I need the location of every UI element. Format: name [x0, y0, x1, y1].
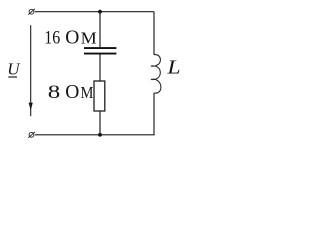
voltage arrow U line — [30, 25, 32, 116]
underline of U — [8, 76, 17, 78]
svg-text:8: 8 — [48, 81, 61, 102]
svg-text:16: 16 — [44, 29, 60, 49]
wire middle branch upper — [99, 12, 101, 48]
svg-text:L: L — [166, 55, 180, 78]
label 16 Om — [44, 28, 96, 49]
node top junction — [98, 10, 102, 14]
voltage arrow head — [29, 103, 33, 111]
wire right lower — [153, 93, 155, 135]
terminal bottom-left — [28, 132, 35, 138]
wire middle below R — [99, 111, 101, 135]
wire bottom — [35, 134, 155, 136]
svg-text:М: М — [81, 84, 94, 102]
inductor L — [151, 55, 161, 94]
svg-text:О: О — [65, 82, 79, 103]
svg-text:М: М — [81, 29, 97, 47]
wire middle between C and R — [99, 55, 101, 82]
wire right upper — [153, 12, 155, 55]
node bottom junction — [98, 133, 102, 137]
label 8 Om — [48, 81, 94, 103]
resistor R box — [94, 81, 105, 111]
terminal top-left — [28, 9, 35, 15]
capacitor C plates — [84, 47, 116, 49]
svg-text:U: U — [7, 59, 21, 78]
wire top — [35, 11, 154, 13]
svg-text:О: О — [65, 28, 79, 49]
